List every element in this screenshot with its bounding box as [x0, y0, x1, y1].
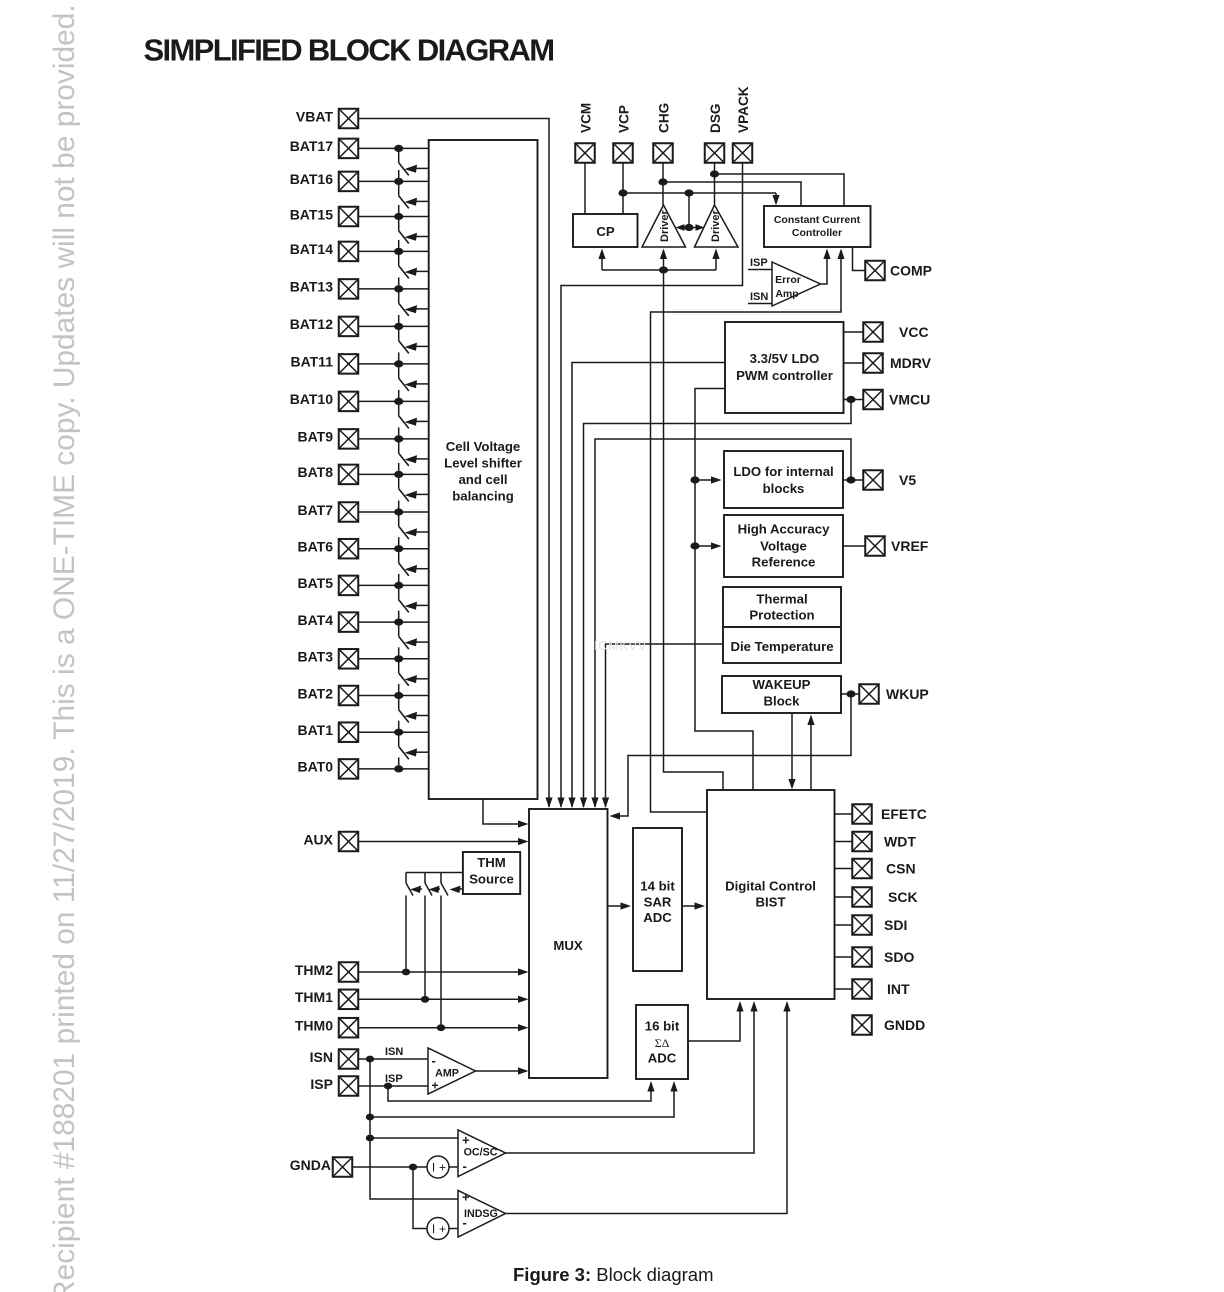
svg-text:THM: THM	[477, 855, 506, 870]
svg-text:BAT12: BAT12	[290, 316, 334, 332]
svg-text:THM1: THM1	[295, 989, 333, 1005]
svg-text:BAT15: BAT15	[290, 206, 334, 222]
svg-text:GNDD: GNDD	[884, 1017, 925, 1033]
svg-text:+: +	[432, 1079, 439, 1093]
svg-text:BAT9: BAT9	[297, 429, 333, 445]
svg-text:16 bit: 16 bit	[645, 1019, 680, 1034]
svg-text:Digital Control: Digital Control	[725, 879, 816, 894]
svg-text:Thermal: Thermal	[756, 591, 807, 606]
svg-text:VCP: VCP	[616, 105, 631, 133]
svg-text:SCK: SCK	[888, 889, 918, 905]
svg-text:INDSG: INDSG	[464, 1208, 498, 1220]
svg-text:and cell: and cell	[458, 472, 507, 487]
svg-text:ISP: ISP	[750, 257, 768, 269]
svg-text:+: +	[439, 1222, 446, 1236]
svg-text:ISN: ISN	[310, 1049, 333, 1065]
svg-text:I: I	[432, 1160, 435, 1174]
svg-text:balancing: balancing	[452, 489, 514, 504]
svg-text:THM0: THM0	[295, 1018, 333, 1034]
svg-text:AUX: AUX	[303, 831, 333, 847]
svg-text:ADC: ADC	[643, 910, 672, 925]
svg-text:OC/SC: OC/SC	[464, 1146, 498, 1158]
svg-text:BAT16: BAT16	[290, 171, 334, 187]
svg-text:MUX: MUX	[553, 938, 583, 953]
svg-text:BAT3: BAT3	[297, 649, 333, 665]
svg-text:BAT6: BAT6	[297, 539, 333, 555]
svg-text:Constant Current: Constant Current	[774, 214, 861, 226]
svg-text:-: -	[463, 1159, 467, 1174]
svg-text:BAT1: BAT1	[297, 722, 333, 738]
svg-text:3.3/5V LDO: 3.3/5V LDO	[750, 351, 820, 366]
svg-text:EFETC: EFETC	[881, 806, 927, 822]
svg-text:+: +	[462, 1190, 470, 1205]
svg-text:VMCU: VMCU	[889, 392, 930, 408]
svg-text:Block: Block	[764, 694, 801, 709]
svg-text:BAT7: BAT7	[297, 502, 333, 518]
svg-text:Amp: Amp	[775, 288, 798, 300]
svg-text:CP: CP	[596, 224, 615, 239]
svg-text:INT: INT	[887, 981, 910, 997]
svg-text:V5: V5	[899, 472, 916, 488]
svg-text:VPACK: VPACK	[736, 86, 751, 133]
svg-text:LDO for internal: LDO for internal	[733, 464, 833, 479]
svg-text:Controller: Controller	[792, 227, 842, 239]
svg-text:SDI: SDI	[884, 917, 907, 933]
svg-text:Driver: Driver	[710, 209, 722, 242]
svg-text:Error: Error	[775, 274, 801, 286]
svg-text:Voltage: Voltage	[760, 538, 807, 553]
svg-text:Level shifter: Level shifter	[444, 456, 522, 471]
svg-text:BAT10: BAT10	[290, 391, 334, 407]
svg-text:BAT13: BAT13	[290, 279, 334, 295]
svg-text:BAT14: BAT14	[290, 241, 334, 257]
svg-text:BAT11: BAT11	[290, 354, 333, 370]
svg-text:-: -	[432, 1053, 436, 1068]
svg-text:BAT8: BAT8	[297, 464, 333, 480]
svg-text:CSN: CSN	[886, 861, 916, 877]
svg-text:BAT0: BAT0	[297, 759, 333, 775]
svg-text:WDT: WDT	[884, 834, 916, 850]
svg-text:VBAT: VBAT	[296, 108, 334, 124]
svg-text:BAT17: BAT17	[290, 138, 334, 154]
svg-text:BAT2: BAT2	[297, 685, 333, 701]
svg-text:COMP: COMP	[890, 263, 932, 279]
svg-text:Protection: Protection	[749, 608, 814, 623]
svg-text:AMP: AMP	[435, 1068, 459, 1080]
svg-text:WAKEUP: WAKEUP	[753, 677, 811, 692]
svg-text:Cell Voltage: Cell Voltage	[446, 439, 521, 454]
svg-text:-: -	[463, 1215, 467, 1230]
svg-text:DSG: DSG	[708, 104, 723, 133]
svg-text:I: I	[432, 1222, 435, 1236]
svg-text:BAT5: BAT5	[297, 575, 333, 591]
svg-text:+: +	[462, 1133, 470, 1148]
svg-text:MDRV: MDRV	[890, 355, 932, 371]
svg-text:VCC: VCC	[899, 324, 929, 340]
svg-text:SAR: SAR	[644, 894, 672, 909]
svg-text:THM2: THM2	[295, 962, 333, 978]
svg-text:VCM: VCM	[578, 103, 593, 133]
svg-text:ΣΔ: ΣΔ	[655, 1036, 670, 1050]
svg-text:GNDA: GNDA	[290, 1157, 331, 1173]
svg-text:ISN: ISN	[750, 291, 768, 303]
svg-text:SDO: SDO	[884, 949, 914, 965]
svg-text:ISP: ISP	[310, 1076, 333, 1092]
svg-text:ICMKVV: ICMKVV	[594, 638, 647, 653]
svg-text:PWM controller: PWM controller	[736, 368, 833, 383]
svg-text:Reference: Reference	[752, 555, 816, 570]
svg-text:VREF: VREF	[891, 538, 929, 554]
svg-text:blocks: blocks	[763, 481, 805, 496]
svg-text:WKUP: WKUP	[886, 686, 929, 702]
svg-text:High Accuracy: High Accuracy	[738, 521, 831, 536]
svg-text:SIMPLIFIED BLOCK DIAGRAM: SIMPLIFIED BLOCK DIAGRAM	[144, 33, 554, 68]
svg-text:ISP: ISP	[385, 1073, 403, 1085]
svg-text:Driver: Driver	[659, 209, 671, 242]
svg-text:BIST: BIST	[755, 894, 785, 909]
svg-text:+: +	[439, 1160, 446, 1174]
svg-text:Recipient #188201 printed on 1: Recipient #188201 printed on 11/27/2019.…	[48, 4, 81, 1292]
svg-text:BAT4: BAT4	[297, 612, 333, 628]
svg-text:ADC: ADC	[648, 1050, 677, 1065]
svg-text:CHG: CHG	[656, 103, 671, 133]
svg-text:ISN: ISN	[385, 1046, 403, 1058]
svg-text:Figure 3: Block diagram: Figure 3: Block diagram	[513, 1264, 713, 1285]
svg-text:14 bit: 14 bit	[640, 879, 675, 894]
svg-text:Source: Source	[469, 872, 514, 887]
svg-text:Die Temperature: Die Temperature	[730, 639, 833, 654]
